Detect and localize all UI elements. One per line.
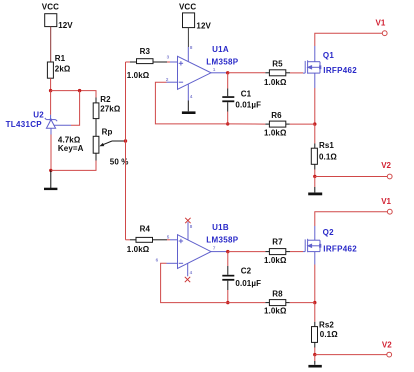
wire R7 to Q2 gate — [290, 251, 303, 253]
svg-text:V2: V2 — [381, 161, 391, 170]
svg-text:U1B: U1B — [212, 223, 229, 232]
wire node D to V2 terminal — [315, 176, 388, 178]
power VCC symbol (middle) — [183, 13, 195, 28]
wire C1 to node E — [227, 112, 229, 124]
ground (left) — [44, 170, 57, 189]
wire Q1 drain to V1 terminal — [315, 33, 383, 46]
svg-text:LM358P: LM358P — [206, 236, 238, 245]
shunt regulator U2 TL431CP symbol — [45, 115, 71, 135]
wire Q2 source down — [314, 265, 316, 303]
wire U2 anode to ground node — [50, 135, 52, 171]
svg-text:1.0kΩ: 1.0kΩ — [127, 245, 150, 254]
U1B unconnected pin marker (bottom) — [185, 277, 190, 282]
svg-text:R3: R3 — [140, 47, 151, 56]
wire node F to R7 — [228, 251, 266, 253]
svg-text:U2: U2 — [33, 111, 44, 120]
wire R3 to U1A plus input — [167, 61, 170, 63]
wire C2 to node H — [227, 290, 229, 303]
wire feedback to U1B minus input — [161, 263, 228, 302]
capacitor C2 — [222, 275, 234, 290]
resistor R4 — [130, 237, 167, 242]
node D junction — [313, 175, 316, 178]
svg-text:C1: C1 — [241, 89, 252, 98]
wire node C to Rs1 — [314, 124, 316, 143]
wire node F to C2 — [227, 252, 229, 275]
wire bus to R3 — [126, 61, 131, 63]
resistor R5 — [265, 70, 290, 76]
wire R6 to node C — [290, 123, 315, 125]
node H junction — [226, 301, 229, 304]
svg-text:1.0kΩ: 1.0kΩ — [264, 307, 287, 316]
svg-text:R8: R8 — [272, 290, 283, 299]
svg-text:Q2: Q2 — [323, 228, 335, 237]
net V1 terminal (lower) — [387, 209, 392, 214]
svg-text:R5: R5 — [272, 59, 283, 68]
ground under U1A — [182, 101, 196, 113]
svg-text:2kΩ: 2kΩ — [55, 65, 71, 74]
svg-text:LM358P: LM358P — [206, 57, 238, 66]
wire node I to ground — [314, 355, 316, 365]
wire VCC to U1A pin 8 — [187, 28, 189, 47]
wire feedback to U1A minus input — [155, 82, 227, 124]
node F junction — [226, 250, 229, 253]
resistor R7 — [265, 249, 290, 255]
wire U1A output to node B — [227, 72, 228, 74]
wire bus vertical R3-R4 — [125, 62, 127, 240]
net V2 terminal (mid) — [387, 174, 392, 179]
capacitor C1 — [222, 96, 234, 111]
svg-text:VCC: VCC — [179, 2, 196, 11]
wire node B to R5 — [228, 72, 266, 74]
svg-text:Key=A: Key=A — [58, 144, 84, 153]
svg-text:1.0kΩ: 1.0kΩ — [264, 129, 287, 138]
svg-text:IRFP462: IRFP462 — [323, 245, 357, 254]
wire Rs2 to node I — [314, 348, 316, 355]
wire node I to V2 terminal — [315, 354, 387, 356]
svg-text:12V: 12V — [58, 21, 73, 30]
wire Rp bottom to anode node — [51, 161, 96, 171]
svg-text:R7: R7 — [272, 237, 283, 246]
wire ref branch down to U2 — [71, 91, 80, 126]
wire node H to R8 — [228, 302, 266, 304]
resistor Rs1 — [311, 144, 317, 170]
ground (mid right) — [308, 192, 322, 195]
svg-text:VCC: VCC — [42, 2, 59, 11]
ground (bottom right) — [308, 365, 321, 368]
wire R8 to node G — [290, 302, 315, 304]
wire node E to R6 — [228, 123, 266, 125]
wiper junction — [124, 139, 127, 142]
resistor Rs2 — [312, 322, 318, 348]
power VCC symbol (left) — [45, 14, 57, 27]
svg-text:R1: R1 — [55, 54, 66, 63]
wire Q1 source down — [314, 88, 316, 124]
net V2 terminal (bottom) — [387, 352, 392, 357]
svg-text:4.7kΩ: 4.7kΩ — [58, 135, 81, 144]
svg-text:0.1Ω: 0.1Ω — [319, 152, 337, 161]
wire bus to R4 — [126, 239, 131, 241]
Rp wiper arrow — [99, 141, 125, 146]
resistor R1 — [47, 62, 53, 78]
svg-text:IRFP462: IRFP462 — [323, 66, 357, 75]
svg-text:1.0kΩ: 1.0kΩ — [264, 78, 287, 87]
junction node A2 (TL431 ref branch) — [78, 89, 81, 92]
wire node A to U2 cathode — [50, 91, 52, 115]
svg-text:U1A: U1A — [212, 45, 229, 54]
svg-text:Rp: Rp — [102, 127, 113, 136]
resistor R3 — [130, 59, 167, 64]
resistor R8 — [265, 300, 289, 306]
node anode junction — [49, 169, 52, 172]
op-amp U1A — [167, 47, 227, 101]
wire U1B output to node F — [227, 251, 228, 253]
wire R1 to node A — [50, 78, 52, 90]
node A junction — [49, 89, 52, 92]
wire R4 to U1B plus input — [167, 239, 170, 241]
wire R2 to Rp series lead — [95, 119, 97, 137]
net V1 terminal (top) — [382, 31, 387, 36]
svg-text:1.0kΩ: 1.0kΩ — [127, 71, 150, 80]
svg-text:27kΩ: 27kΩ — [100, 105, 121, 114]
wire R5 to Q1 gate — [290, 72, 303, 74]
wire Q2 drain to V1 terminal — [315, 212, 388, 226]
svg-text:V1: V1 — [381, 197, 391, 206]
svg-text:R2: R2 — [100, 95, 111, 104]
svg-text:Q1: Q1 — [323, 51, 335, 60]
op-amp U1B — [167, 222, 227, 276]
svg-text:V1: V1 — [376, 18, 386, 27]
svg-text:12V: 12V — [196, 22, 211, 31]
transistor Q2 IRFP462 N-MOSFET — [303, 226, 321, 265]
svg-text:R4: R4 — [140, 225, 151, 234]
svg-text:Rs1: Rs1 — [319, 141, 334, 150]
svg-text:0.1Ω: 0.1Ω — [320, 330, 338, 339]
potentiometer Rp — [93, 136, 99, 160]
wire node A to R2 — [51, 91, 96, 98]
wire node B to C1 — [227, 73, 229, 96]
svg-text:TL431CP: TL431CP — [6, 120, 43, 129]
node E junction — [226, 122, 229, 125]
transistor Q1 IRFP462 N-MOSFET — [303, 46, 321, 88]
wire node G to Rs2 — [314, 303, 316, 322]
resistor R6 — [265, 121, 289, 127]
wire node D to ground — [314, 176, 316, 192]
svg-text:Rs2: Rs2 — [319, 321, 334, 330]
wire VCC to R1 — [50, 27, 52, 62]
svg-text:R6: R6 — [271, 111, 282, 120]
svg-text:1.0kΩ: 1.0kΩ — [264, 256, 287, 265]
node I junction — [313, 353, 316, 356]
node B junction — [226, 71, 229, 74]
U1B unconnected pin marker (top) — [185, 218, 190, 223]
resistor R2 — [93, 98, 99, 119]
svg-text:V2: V2 — [382, 341, 392, 350]
wire Rs1 to node D — [314, 170, 316, 177]
svg-text:0.01µF: 0.01µF — [235, 279, 261, 288]
svg-text:C2: C2 — [241, 266, 252, 275]
svg-text:0.01µF: 0.01µF — [235, 101, 261, 110]
U2 cathode junction dot — [50, 118, 52, 120]
node C junction (R6 to source) — [313, 122, 316, 125]
node G junction (R8 to source) — [313, 301, 316, 304]
